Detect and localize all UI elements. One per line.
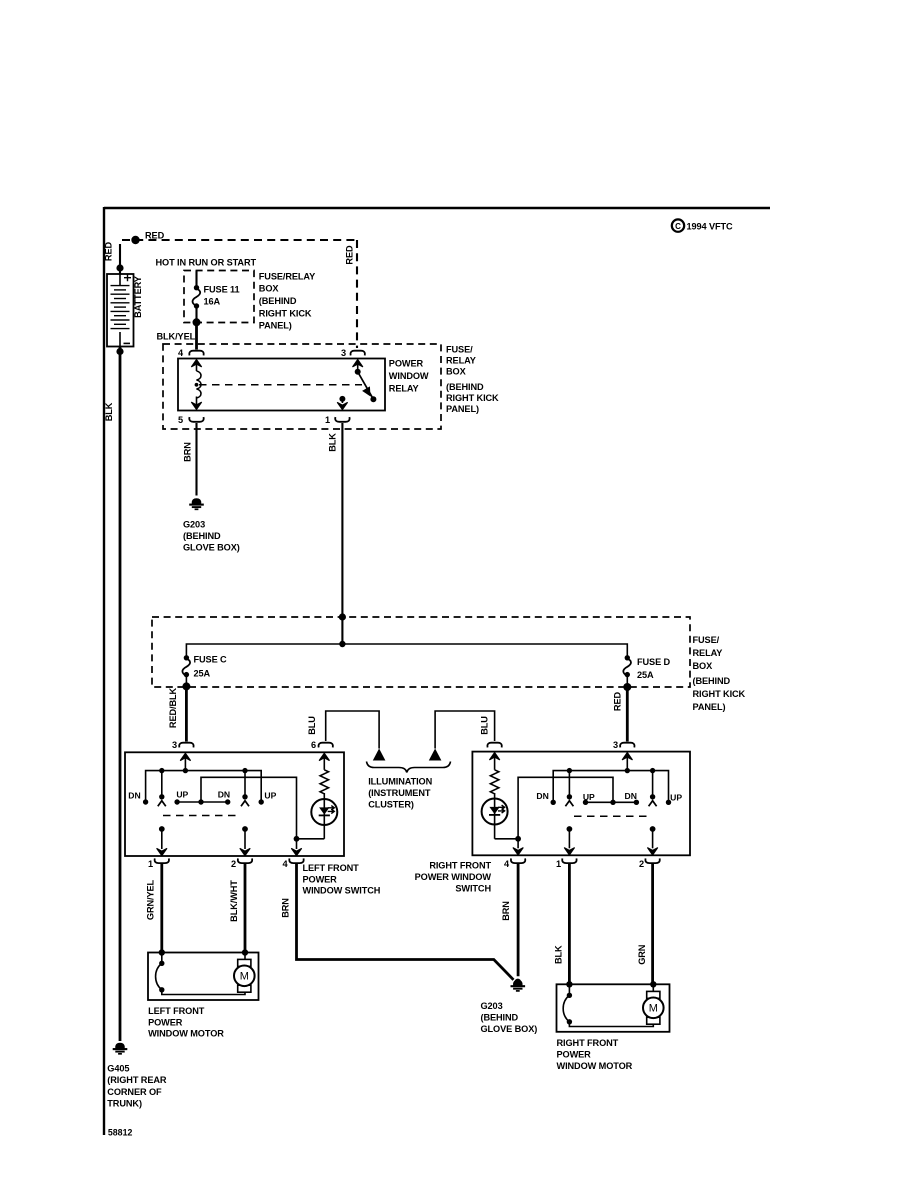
fuse D <box>623 655 631 687</box>
contact nodes right switch (DN/UP) <box>551 800 556 805</box>
left pole switch 1 <box>157 771 167 856</box>
label POWER WINDOW RELAY <box>389 359 429 394</box>
svg-text:BOX: BOX <box>259 284 280 294</box>
svg-text:5: 5 <box>178 415 183 425</box>
svg-text:C: C <box>675 222 681 231</box>
svg-text:4: 4 <box>282 859 288 869</box>
svg-text:PANEL): PANEL) <box>259 321 292 331</box>
lamp drop left <box>373 749 386 761</box>
svg-text:ILLUMINATION: ILLUMINATION <box>368 776 432 786</box>
svg-text:58812: 58812 <box>108 1128 133 1138</box>
pin3 entry arrow right switch <box>622 753 632 760</box>
svg-text:4: 4 <box>178 348 184 358</box>
svg-text:G203: G203 <box>481 1001 503 1011</box>
right switch pin 2 connector <box>645 858 659 863</box>
svg-text:FUSE 11: FUSE 11 <box>204 285 240 295</box>
ground G405 <box>113 1043 128 1054</box>
svg-text:POWER WINDOW: POWER WINDOW <box>415 872 492 882</box>
svg-text:SWITCH: SWITCH <box>455 884 491 894</box>
RIGHT FRONT POWER WINDOW MOTOR box <box>557 984 670 1032</box>
wire BLK battery negative to G405 <box>119 347 122 1042</box>
svg-text:LEFT FRONT: LEFT FRONT <box>148 1006 205 1016</box>
label RIGHT FRONT POWER WINDOW MOTOR <box>557 1038 633 1071</box>
svg-text:HOT IN RUN OR START: HOT IN RUN OR START <box>156 258 257 268</box>
wire into fuse 11 <box>195 271 197 289</box>
svg-text:DN: DN <box>128 791 140 801</box>
wire battery positive up <box>119 252 121 274</box>
svg-text:BLU: BLU <box>480 716 490 735</box>
svg-text:(BEHIND: (BEHIND <box>446 382 484 392</box>
svg-text:G405: G405 <box>107 1064 129 1074</box>
relay solid box <box>178 359 385 411</box>
wire BLK/YEL fuse 11 to relay pin 4 <box>195 322 198 349</box>
svg-text:RIGHT FRONT: RIGHT FRONT <box>557 1038 619 1048</box>
ground G203 (lower) <box>511 980 526 991</box>
relay switch arm <box>353 360 377 403</box>
svg-text:1994 VFTC: 1994 VFTC <box>687 222 734 232</box>
svg-text:PANEL): PANEL) <box>446 404 479 414</box>
svg-text:RELAY: RELAY <box>693 648 723 658</box>
node battery bottom <box>116 348 123 355</box>
wire RED dashed feed (top) <box>122 239 357 241</box>
svg-text:BLU: BLU <box>307 716 317 735</box>
power window relay dashed box <box>163 344 441 429</box>
wire BLK relay pin 1 down to fuse box 2 <box>341 423 343 644</box>
svg-text:GLOVE BOX): GLOVE BOX) <box>481 1024 538 1034</box>
svg-text:PANEL): PANEL) <box>693 702 726 712</box>
left switch pin 1 connector <box>155 858 169 863</box>
node battery top junction <box>116 264 123 271</box>
svg-text:3: 3 <box>341 348 346 358</box>
svg-text:4: 4 <box>504 859 510 869</box>
wire RED/BLK fuse C to left switch pin 3 <box>185 686 188 741</box>
bus1 right switch <box>553 771 668 803</box>
ground G203 (upper) <box>189 499 204 510</box>
left switch pin 4 connector <box>289 858 303 863</box>
svg-text:(BEHIND: (BEHIND <box>259 296 297 306</box>
svg-text:CORNER OF: CORNER OF <box>107 1087 162 1097</box>
pin 3 connector <box>351 351 365 356</box>
wire RED fuse D to right switch pin 3 <box>626 687 629 742</box>
svg-text:BRN: BRN <box>280 898 290 918</box>
left switch pin 2 connector <box>238 858 252 863</box>
svg-text:LEFT FRONT: LEFT FRONT <box>303 863 360 873</box>
pole 2 right switch <box>647 771 657 855</box>
svg-text:FUSE/: FUSE/ <box>446 345 473 355</box>
svg-text:GLOVE BOX): GLOVE BOX) <box>183 543 240 553</box>
svg-text:GRN/YEL: GRN/YEL <box>146 879 156 920</box>
motor commutator arc right <box>563 984 653 1026</box>
svg-text:RIGHT KICK: RIGHT KICK <box>693 689 746 699</box>
svg-text:UP: UP <box>670 793 682 803</box>
pin4 drop + junction <box>294 836 300 842</box>
svg-text:DN: DN <box>218 790 230 800</box>
svg-text:BRN: BRN <box>501 901 511 921</box>
svg-text:RED: RED <box>613 691 623 711</box>
right pole switch 1 <box>240 771 250 856</box>
svg-text:FUSE C: FUSE C <box>194 655 228 665</box>
svg-text:DN: DN <box>536 791 548 801</box>
svg-text:CLUSTER): CLUSTER) <box>368 799 414 809</box>
svg-text:1: 1 <box>556 859 561 869</box>
wire BLK/WHT left switch pin2 to motor <box>244 863 247 952</box>
relay output contact <box>337 396 347 410</box>
pin 1 connector <box>335 417 349 422</box>
bus1 left switch <box>146 771 262 802</box>
RIGHT FRONT POWER WINDOW SWITCH box <box>472 752 690 856</box>
svg-text:1: 1 <box>325 415 330 425</box>
motor commutator arc left <box>156 953 245 995</box>
svg-text:POWER: POWER <box>303 874 338 884</box>
svg-text:G203: G203 <box>183 520 205 530</box>
svg-text:BLK: BLK <box>328 433 338 452</box>
svg-text:3: 3 <box>613 740 618 750</box>
right switch pin 1 connector <box>562 858 576 863</box>
contact nodes left switch (DN/UP) <box>143 799 148 804</box>
svg-text:RED: RED <box>104 241 114 261</box>
svg-text:RED: RED <box>345 245 355 265</box>
svg-text:WINDOW: WINDOW <box>389 371 429 381</box>
label LEFT FRONT POWER WINDOW MOTOR <box>148 1006 224 1039</box>
node RED feed junction <box>131 236 139 244</box>
svg-text:1: 1 <box>148 859 153 869</box>
wire BRN right switch pin4 to G203 <box>517 863 520 976</box>
svg-text:GRN: GRN <box>637 944 647 965</box>
LEFT FRONT POWER WINDOW MOTOR box <box>148 953 259 1001</box>
svg-text:RIGHT KICK: RIGHT KICK <box>446 393 499 403</box>
label fuse/relay box 1 <box>259 271 315 330</box>
node G203 junction <box>515 979 521 985</box>
svg-text:2: 2 <box>231 859 236 869</box>
label fuse/relay box 2 <box>693 635 746 712</box>
wire BLU left illumination <box>326 711 379 749</box>
contact row left switch <box>177 801 228 803</box>
fuse C <box>182 655 190 686</box>
label LEFT FRONT POWER WINDOW SWITCH <box>303 863 381 896</box>
svg-text:RIGHT KICK: RIGHT KICK <box>259 308 312 318</box>
nodes left motor terminals <box>159 949 165 955</box>
svg-text:RELAY: RELAY <box>446 356 476 366</box>
svg-text:BLK: BLK <box>553 945 563 964</box>
pole 1 right switch <box>564 771 574 855</box>
page border top line <box>104 207 770 209</box>
svg-text:BLK: BLK <box>104 402 114 421</box>
bus2 right switch <box>518 777 613 839</box>
pin4 junction right switch <box>515 836 521 842</box>
svg-text:RELAY: RELAY <box>389 384 419 394</box>
svg-text:FUSE/RELAY: FUSE/RELAY <box>259 271 315 281</box>
pin3 entry arrow <box>180 753 190 760</box>
lamp drop right <box>429 749 442 761</box>
svg-text:3: 3 <box>172 740 177 750</box>
mech link left switch <box>163 815 240 817</box>
node fuse D exit <box>623 683 631 691</box>
svg-text:(RIGHT REAR: (RIGHT REAR <box>107 1075 167 1085</box>
wire GRN right switch pin2 to motor <box>651 863 654 984</box>
svg-text:BOX: BOX <box>693 661 714 671</box>
svg-text:BATTERY: BATTERY <box>133 276 143 318</box>
svg-text:WINDOW SWITCH: WINDOW SWITCH <box>303 886 381 896</box>
svg-text:(BEHIND: (BEHIND <box>481 1013 519 1023</box>
fuse/relay box #2 (dashed) <box>152 617 690 687</box>
wire GRN/YEL left switch pin1 to motor <box>160 863 163 952</box>
page border left line <box>103 207 105 1135</box>
svg-text:BLK/YEL: BLK/YEL <box>157 332 196 342</box>
motor M right <box>643 991 664 1024</box>
relay mechanical link (dashed) <box>199 384 362 386</box>
battery B1 <box>107 274 134 347</box>
left switch pin 6 connector <box>319 743 333 748</box>
svg-text:WINDOW MOTOR: WINDOW MOTOR <box>148 1029 224 1039</box>
right switch pin 3 connector <box>620 743 634 748</box>
mech link right switch <box>574 815 650 817</box>
right switch pin 6 (BLU) connector <box>487 743 501 748</box>
bus2 left switch <box>201 777 297 839</box>
motor M left <box>234 959 255 992</box>
contact row right switch <box>586 801 637 803</box>
label RIGHT FRONT POWER WINDOW SWITCH <box>415 861 492 894</box>
svg-text:TRUNK): TRUNK) <box>107 1099 142 1109</box>
node fuse box exit <box>193 318 201 326</box>
svg-text:16A: 16A <box>204 297 221 307</box>
illumination LED branch right switch <box>482 753 518 839</box>
label ILLUMINATION <box>368 776 432 809</box>
svg-text:POWER: POWER <box>389 359 424 369</box>
pin 4 connector <box>189 351 203 356</box>
label fuse/relay box (right of relay) <box>446 345 499 415</box>
svg-text:RIGHT FRONT: RIGHT FRONT <box>429 861 491 871</box>
nodes right motor terminals <box>566 981 572 987</box>
svg-text:RED/BLK: RED/BLK <box>168 687 178 728</box>
svg-text:(BEHIND: (BEHIND <box>183 531 221 541</box>
pin 5 connector <box>189 417 203 422</box>
svg-text:POWER: POWER <box>148 1017 183 1027</box>
wire BRN left switch pin4 to G203 <box>297 863 514 979</box>
LEFT FRONT POWER WINDOW SWITCH box <box>125 752 344 856</box>
nodes on bus1 left switch <box>159 768 164 773</box>
svg-text:BLK/WHT: BLK/WHT <box>229 880 239 922</box>
wire RED dashed down to relay pin 3 <box>356 240 358 348</box>
wire BLU right illumination <box>435 711 495 749</box>
wire RED dashed corner <box>119 240 121 252</box>
fuse/relay box #1 (dashed) <box>184 271 254 323</box>
left switch pin 3 connector <box>179 743 193 748</box>
brace illumination <box>367 762 451 773</box>
right switch pin 4 connector <box>511 858 525 863</box>
relay coil K1 <box>191 360 201 410</box>
svg-text:25A: 25A <box>194 669 211 679</box>
wire fuse 11 to box edge <box>195 306 197 322</box>
svg-text:BOX: BOX <box>446 367 467 377</box>
svg-text:2: 2 <box>639 859 644 869</box>
svg-text:UP: UP <box>264 791 276 801</box>
svg-text:FUSE/: FUSE/ <box>693 635 720 645</box>
nodes on bus1 right switch <box>567 768 572 773</box>
svg-text:(BEHIND: (BEHIND <box>693 676 731 686</box>
wire BLK right switch pin1 to motor <box>568 863 571 984</box>
svg-text:UP: UP <box>583 792 595 802</box>
svg-text:WINDOW MOTOR: WINDOW MOTOR <box>557 1061 633 1071</box>
fuse F11 <box>193 285 201 309</box>
svg-text:(INSTRUMENT: (INSTRUMENT <box>368 788 431 798</box>
node bus junction <box>339 641 345 647</box>
node BLK at fuse box edge <box>339 613 346 620</box>
svg-text:6: 6 <box>311 740 316 750</box>
node fuse C exit <box>182 682 190 690</box>
svg-text:DN: DN <box>624 791 636 801</box>
copyright 1994 VFTC <box>672 219 733 231</box>
svg-text:RED: RED <box>145 231 165 241</box>
svg-text:POWER: POWER <box>557 1049 592 1059</box>
svg-text:UP: UP <box>176 790 188 800</box>
svg-text:25A: 25A <box>637 670 654 680</box>
svg-text:BRN: BRN <box>183 442 193 462</box>
svg-text:FUSE D: FUSE D <box>637 657 671 667</box>
bus wire inside fuse box 2 <box>186 644 627 658</box>
illumination LED branch left switch <box>297 753 338 839</box>
wire BRN relay pin 5 to G203 <box>195 423 197 496</box>
